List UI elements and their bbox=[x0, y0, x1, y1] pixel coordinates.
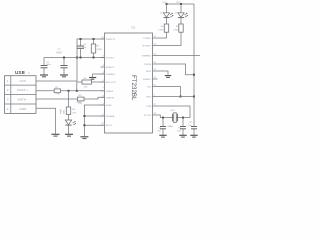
pin stubs right bbox=[153, 38, 158, 115]
svg-text:TXDEN: TXDEN bbox=[144, 64, 152, 66]
node EEDATA junction bbox=[83, 115, 85, 117]
svg-text:USBDP: USBDP bbox=[106, 91, 114, 93]
svg-text:USB: USB bbox=[15, 70, 25, 75]
capacitor C3 bbox=[77, 39, 87, 58]
ground for USB bbox=[52, 134, 60, 136]
wire EEDATA bbox=[84, 115, 104, 117]
USB connector J1 box bbox=[5, 76, 37, 114]
svg-text:TXD: TXD bbox=[147, 87, 152, 89]
pin labels left inside bbox=[106, 39, 117, 127]
node VCC led2 bbox=[180, 3, 182, 5]
resistor R1 bbox=[91, 39, 102, 58]
svg-text:XTOUT: XTOUT bbox=[144, 115, 152, 117]
capacitor C6 bbox=[188, 97, 197, 135]
svg-text:100n: 100n bbox=[46, 64, 52, 66]
node crystal left bbox=[162, 117, 164, 119]
resistor R7 bbox=[158, 24, 184, 46]
svg-text:VCC: VCC bbox=[162, 2, 167, 4]
wire VCC rail top bbox=[167, 3, 195, 5]
wire EEPROM bus bbox=[84, 105, 104, 136]
svg-text:RXD: RXD bbox=[147, 97, 152, 99]
node TXD joins RXD wire bbox=[180, 96, 182, 98]
svg-text:6MHz: 6MHz bbox=[168, 126, 174, 128]
svg-text:RXLED#: RXLED# bbox=[143, 46, 152, 48]
node cap C6 bbox=[193, 96, 195, 98]
ground for EEPROM bus bbox=[80, 137, 88, 139]
wire PWREN off edge bbox=[158, 55, 201, 57]
node D+ junction pullup bbox=[76, 90, 78, 92]
wire right vertical VCC bbox=[193, 4, 195, 97]
svg-text:LED: LED bbox=[63, 109, 65, 114]
wire TXDEN net bbox=[158, 64, 195, 75]
wire EECS bbox=[84, 124, 104, 126]
svg-text:DATA +: DATA + bbox=[17, 88, 28, 92]
node R1 top bbox=[93, 38, 95, 40]
svg-text:270R: 270R bbox=[173, 29, 179, 31]
LED D2 bbox=[175, 4, 188, 24]
svg-text:PWRCTL: PWRCTL bbox=[106, 39, 116, 41]
resistor R5 bbox=[66, 107, 77, 115]
node C3 bottom bbox=[80, 57, 82, 59]
svg-text:EEDATA: EEDATA bbox=[106, 115, 115, 118]
node TXDEN joins rail bbox=[193, 74, 195, 76]
node crystal right bbox=[182, 117, 184, 119]
wire TEST to ground bbox=[158, 71, 169, 75]
svg-text:TXLED#: TXLED# bbox=[143, 38, 152, 40]
svg-text:270R: 270R bbox=[158, 29, 164, 31]
svg-text:470R: 470R bbox=[97, 49, 103, 51]
svg-text:EESK: EESK bbox=[106, 105, 112, 107]
svg-text:27R: 27R bbox=[56, 94, 60, 96]
svg-text:PWREN#: PWREN# bbox=[142, 56, 152, 58]
resistor R3 27R on D- bbox=[36, 95, 105, 105]
pin labels right inside bbox=[142, 38, 152, 117]
wire XTIN bbox=[158, 106, 191, 118]
ground for C1 bbox=[40, 75, 48, 77]
svg-text:GND: GND bbox=[77, 102, 82, 104]
svg-text:47uF: 47uF bbox=[56, 51, 62, 54]
resistor R4 1K5 pullup bbox=[77, 78, 105, 91]
capacitor C4 bbox=[157, 118, 166, 135]
wire VCC row1 to vertical bbox=[36, 39, 105, 81]
wire AGND pin bbox=[93, 74, 105, 77]
node EECS junction bbox=[83, 124, 85, 126]
resistor R6 bbox=[158, 24, 169, 38]
svg-text:USBDM: USBDM bbox=[106, 97, 114, 99]
wire LED branch bbox=[68, 91, 70, 107]
node R1 bottom bbox=[93, 57, 95, 59]
capacitor C1 bbox=[41, 58, 52, 75]
LED D3 bbox=[65, 115, 76, 134]
svg-text:PWR: PWR bbox=[61, 108, 63, 114]
resistor R2 27R on D+ bbox=[36, 87, 105, 96]
ground for C5 bbox=[179, 135, 186, 137]
node C3 top bbox=[80, 38, 82, 40]
pin numbers right bbox=[154, 36, 157, 115]
ground for C6 bbox=[190, 135, 197, 137]
svg-text:DATA -: DATA - bbox=[18, 98, 29, 102]
wire TXD branch bbox=[158, 87, 181, 97]
svg-text:IC1: IC1 bbox=[132, 27, 137, 30]
LED D1 bbox=[160, 4, 173, 24]
ground for AGND bbox=[89, 78, 96, 80]
svg-text:VCC: VCC bbox=[19, 79, 26, 83]
svg-text:FT232BL: FT232BL bbox=[130, 75, 137, 101]
node D+ junction led branch bbox=[68, 90, 70, 92]
node C2 junction bbox=[63, 57, 65, 59]
ground for LED branch bbox=[65, 134, 73, 136]
ground for TEST bbox=[165, 76, 171, 78]
crystal Q1 bbox=[168, 110, 178, 128]
wire XTOUT bbox=[158, 115, 191, 118]
pin numbers left bbox=[101, 37, 104, 125]
svg-text:3V3OUT: 3V3OUT bbox=[106, 58, 115, 60]
svg-text:GND: GND bbox=[19, 107, 26, 111]
svg-text:VCC: VCC bbox=[176, 2, 181, 4]
ground for C4 bbox=[159, 135, 166, 137]
wire 3V3 bus bbox=[44, 57, 105, 59]
capacitor C2 bbox=[56, 49, 67, 75]
wire RXD to rail corner bbox=[158, 96, 195, 98]
pin stubs left bbox=[101, 39, 105, 125]
capacitor C5 bbox=[177, 118, 186, 135]
node VCC led1 bbox=[166, 3, 168, 5]
wire USB GND bbox=[36, 108, 56, 134]
svg-text:EECS: EECS bbox=[106, 125, 112, 127]
ground for C2 bbox=[60, 75, 68, 77]
node VCC bus junction bbox=[76, 57, 78, 59]
op IC U1 FT232BL box bbox=[105, 27, 153, 133]
svg-text:RSTOUT#: RSTOUT# bbox=[106, 82, 117, 84]
svg-text:XTIN: XTIN bbox=[146, 106, 151, 108]
svg-text:PWREN#: PWREN# bbox=[106, 74, 116, 76]
svg-text:SLEEP#: SLEEP# bbox=[143, 79, 152, 81]
svg-text:RESET#: RESET# bbox=[106, 67, 115, 69]
svg-text:TEST: TEST bbox=[146, 71, 152, 73]
